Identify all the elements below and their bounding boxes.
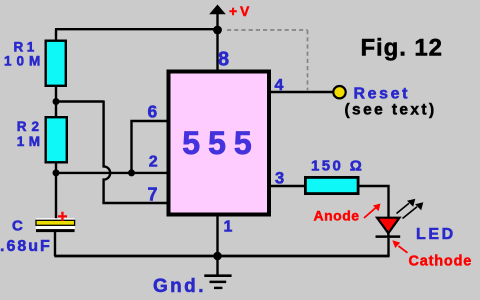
svg-text:Reset: Reset — [354, 86, 411, 103]
svg-text:C: C — [12, 218, 23, 235]
svg-text:8: 8 — [218, 49, 229, 71]
svg-text:+: + — [58, 207, 68, 226]
svg-text:LED: LED — [416, 226, 456, 243]
svg-text:1M: 1M — [17, 134, 45, 149]
svg-text:6: 6 — [148, 102, 158, 122]
svg-text:R1: R1 — [14, 40, 38, 55]
svg-text:Cathode: Cathode — [409, 253, 473, 269]
svg-text:R2: R2 — [17, 119, 44, 134]
svg-text:3: 3 — [275, 170, 284, 188]
svg-text:2: 2 — [149, 154, 158, 171]
svg-text:7: 7 — [148, 185, 158, 205]
svg-text:1: 1 — [224, 219, 233, 236]
svg-text:+V: +V — [229, 3, 252, 19]
svg-text:Gnd.: Gnd. — [153, 276, 206, 297]
svg-text:555: 555 — [182, 125, 259, 161]
svg-text:(see text): (see text) — [345, 102, 437, 119]
svg-text:Fig. 12: Fig. 12 — [361, 35, 443, 62]
svg-text:10M: 10M — [4, 54, 45, 69]
svg-text:Anode: Anode — [314, 208, 360, 224]
svg-text:150 Ω: 150 Ω — [311, 158, 364, 175]
svg-text:.68uF: .68uF — [0, 238, 52, 255]
svg-text:4: 4 — [275, 77, 284, 94]
